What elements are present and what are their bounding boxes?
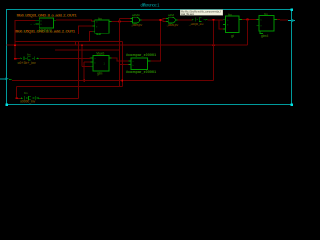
horizontal wire H41 <box>15 41 122 43</box>
wire vertical V122 <box>121 42 123 87</box>
wire IV1 out to U2 pin1 <box>40 57 91 60</box>
wire IV3 out to UA pin1 <box>208 19 223 21</box>
wire U2 out to U3 pin1 <box>112 58 129 61</box>
svg-text:gt: gt <box>231 34 234 38</box>
wire vertical V16 <box>16 87 18 99</box>
junction dot H45xV213 <box>213 44 215 46</box>
wire vertical V82 <box>81 45 83 66</box>
svg-text:a2M4: a2M4 <box>132 13 140 17</box>
component U2 lower middle block <box>91 56 112 72</box>
svg-text:gtm4: gtm4 <box>261 34 268 38</box>
svg-text:_o0O4_inv: _o0O4_inv <box>130 23 143 27</box>
svg-text:fifo0_U5Q31_GND_8_o_add_2_OUT1: fifo0_U5Q31_GND_8_o_add_2_OUT1 <box>17 13 78 18</box>
junction dot V247 top <box>247 19 249 21</box>
wire G1 out to G2 <box>142 19 163 21</box>
wire B horizontal <box>17 86 123 88</box>
wire U2 pin3 from V82 <box>82 65 91 67</box>
wire vertical V213 down to A <box>213 20 215 81</box>
border corner handle bottom-right <box>291 104 294 107</box>
wire vertical V247 <box>247 20 249 46</box>
bright corner at V15 bottom <box>14 58 17 60</box>
wire G2 out to IV3 <box>177 19 192 21</box>
svg-text:ADDER: ADDER <box>39 29 53 33</box>
inline inverter IV3 <box>192 18 208 22</box>
wire U1 pin3 from vertical V89 <box>90 31 93 41</box>
svg-text:_o0Q0_inv: _o0Q0_inv <box>188 22 204 26</box>
component UB right block 2 <box>257 16 278 34</box>
page border <box>7 10 292 105</box>
svg-text:u0+3b+_inv: u0+3b+_inv <box>18 61 36 65</box>
border corner handle top-right <box>291 9 294 12</box>
wire W1 into S1 pin1 <box>15 20 36 58</box>
svg-text:gtm: gtm <box>97 72 103 76</box>
junction dot V213 top <box>213 19 215 21</box>
horizontal long wire H45 <box>7 44 248 46</box>
svg-text:difference:1: difference:1 <box>141 3 161 8</box>
wire vertical V84 <box>83 62 85 81</box>
wire vertical V75 <box>75 42 77 46</box>
wire into inline inverter IV2 <box>17 97 22 99</box>
junction dot AxV122 <box>121 80 123 82</box>
wire gate G1 input1 <box>120 18 131 20</box>
junction dot <box>119 21 121 23</box>
wire S1 out to U1 pin1 <box>56 20 95 21</box>
wire U2 pin2 from V84 <box>84 61 91 63</box>
svg-text:x0000_inv: x0000_inv <box>20 100 35 104</box>
svg-text:fim: fim <box>24 91 27 95</box>
component U1 upper middle block <box>92 20 111 35</box>
wire U3 pin2 feed <box>120 64 129 66</box>
wire UA out to UB pin1 <box>242 19 257 21</box>
wire A long horizontal <box>12 80 214 82</box>
wire G2 input jogs <box>163 19 166 20</box>
component UA right block 1 <box>223 16 242 33</box>
junction dot H45xV82 <box>81 44 83 46</box>
horizontal wire H50 <box>55 49 120 51</box>
svg-text:a2M: a2M <box>168 13 174 17</box>
tooltip box <box>180 10 223 16</box>
wire U3 out up along V160 <box>151 20 161 61</box>
svg-text:_o0O0_inv: _o0O0_inv <box>166 23 179 27</box>
node OUT connector right border <box>288 19 295 23</box>
node IN connector left border <box>0 77 12 80</box>
wire vertical V78 long <box>77 42 79 99</box>
junction dot H45xV15 <box>14 44 16 46</box>
wire U1 out to gate G1 input2 <box>112 20 131 22</box>
svg-text:Mux0: Mux0 <box>97 52 105 56</box>
inline inverter IV1 <box>21 56 40 60</box>
gate G2 <box>166 17 177 23</box>
svg-text:#compar_x00001: #compar_x00001 <box>126 70 156 74</box>
bright corner at V16 bottom <box>16 98 19 99</box>
svg-text:ab: ab <box>31 24 36 26</box>
junction dot AxV84 <box>83 80 85 82</box>
wire vertical V119 <box>119 19 121 87</box>
wire UB out to border <box>277 19 288 22</box>
svg-text:#compar_x00001: #compar_x00001 <box>126 53 156 57</box>
component S1 adder block <box>31 18 57 28</box>
border corner handle bottom-left <box>6 104 9 107</box>
junction dot G1out x V160 <box>160 19 162 21</box>
inline inverter IV2 <box>21 96 40 100</box>
gate G1 <box>130 17 141 23</box>
wire U1 pin2 from vertical V78 <box>78 26 92 34</box>
wire IV2 out to V78 <box>40 97 78 99</box>
wire vertical V219 to UA pin3 <box>219 20 223 29</box>
svg-text:dual_fifo:auto: dual_fifo:auto <box>181 13 195 16</box>
component U3 comparator block <box>129 58 151 70</box>
wire into inline inverter IV1 <box>15 58 20 60</box>
